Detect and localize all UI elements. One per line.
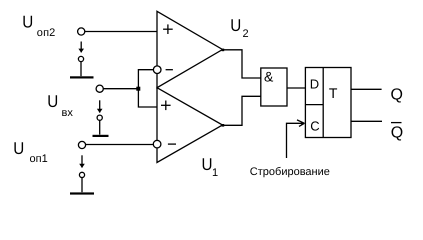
svg-text:&: &: [264, 69, 274, 85]
AND gate: [261, 68, 287, 106]
strobe arrowhead: [297, 120, 305, 127]
minus input U1: [168, 143, 176, 145]
wire: [99, 120, 101, 134]
D flip-flop T: [305, 68, 351, 138]
node Uop1 source: [79, 172, 84, 177]
minus input U2: [166, 69, 173, 71]
voltage source arrow Uvx: [97, 100, 103, 113]
label U1: [202, 155, 219, 179]
terminal Uop2: [78, 28, 85, 35]
ground: [93, 135, 109, 137]
svg-text:U: U: [230, 16, 241, 35]
wire: [138, 70, 157, 107]
junction: [136, 87, 140, 91]
svg-text:оп1: оп1: [30, 153, 48, 165]
voltage source arrow Uop1: [79, 155, 85, 168]
wire: [81, 178, 83, 193]
svg-text:T: T: [329, 85, 338, 101]
junction at U2 output: [222, 49, 225, 52]
label Uop1: [13, 139, 48, 165]
svg-text:вх: вх: [62, 107, 74, 119]
svg-text:2: 2: [243, 28, 249, 40]
op-amp U1: [157, 88, 223, 163]
terminal Uvx: [96, 85, 103, 92]
svg-text:1: 1: [212, 167, 218, 179]
node U2 inverting input: [153, 66, 161, 74]
ground: [70, 76, 94, 78]
strobe wire: [287, 123, 305, 158]
wire Qbar: [351, 120, 382, 122]
label Uop2: [22, 13, 55, 39]
svg-text:D: D: [310, 77, 319, 92]
node Uop2 source: [78, 56, 83, 61]
svg-text:U: U: [13, 139, 24, 158]
svg-text:C: C: [310, 118, 319, 133]
wire: [287, 87, 305, 89]
voltage source arrow Uop2: [78, 42, 84, 53]
wire: [223, 96, 261, 125]
svg-text:Q: Q: [391, 87, 403, 104]
plus input U2: [163, 24, 173, 34]
svg-text:Q: Q: [391, 125, 403, 142]
terminal Uop1: [78, 141, 85, 148]
ground: [70, 192, 94, 194]
svg-text:U: U: [202, 155, 213, 174]
label Uvx: [47, 92, 73, 119]
wire Q: [351, 88, 382, 90]
wire: [86, 144, 154, 146]
overbar of Qbar label: [391, 122, 402, 124]
node Uvx source: [97, 115, 102, 120]
junction at U1 output: [222, 124, 225, 127]
wire: [223, 50, 261, 78]
op-amp U2: [157, 11, 223, 87]
wire: [103, 88, 136, 90]
svg-text:U: U: [22, 13, 33, 32]
plus input U1: [161, 101, 171, 111]
svg-text:Стробирование: Стробирование: [250, 166, 330, 178]
wire: [80, 62, 82, 76]
label U2: [230, 16, 248, 40]
node U1 inverting input: [153, 140, 161, 148]
svg-text:оп2: оп2: [37, 27, 56, 39]
wire: [85, 31, 157, 33]
svg-text:U: U: [47, 92, 58, 111]
